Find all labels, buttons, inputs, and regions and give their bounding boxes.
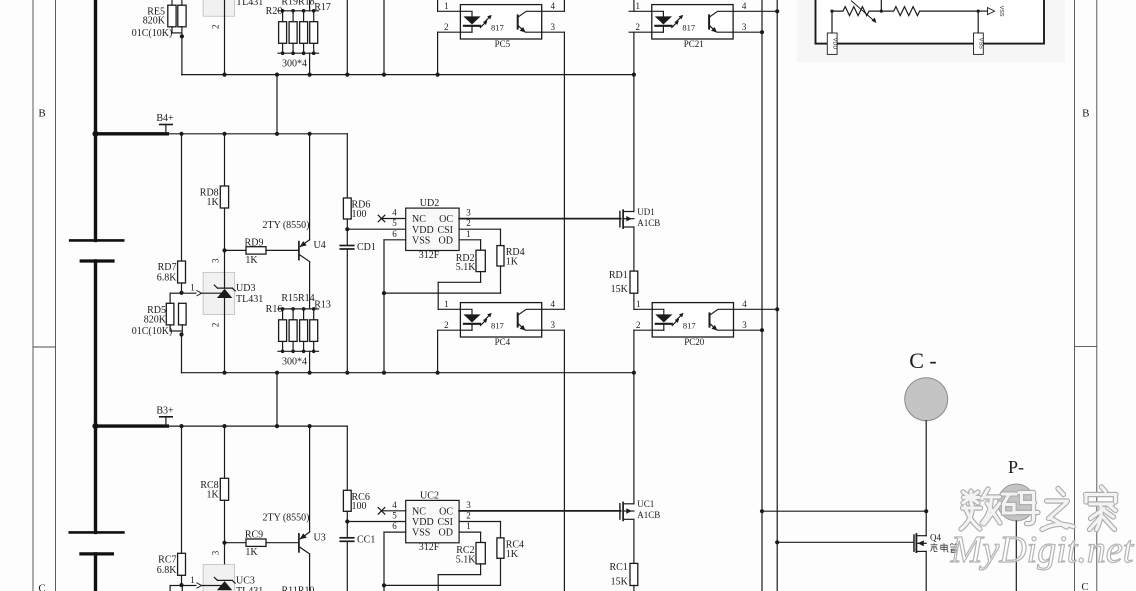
junction RD7/ref <box>179 291 183 295</box>
junction RD9 base node <box>222 248 226 252</box>
svg-text:VSS: VSS <box>412 528 430 539</box>
svg-text:1: 1 <box>466 521 471 531</box>
terminal B3+ <box>156 405 174 426</box>
wire R2x network to E-bus <box>309 53 311 74</box>
optocoupler PC20 body <box>652 303 733 347</box>
inset port VSS <box>974 33 984 54</box>
resistor RD7 <box>157 261 186 284</box>
svg-text:R20: R20 <box>266 6 283 17</box>
svg-text:1K: 1K <box>245 255 258 266</box>
svg-text:R11R10: R11R10 <box>282 585 315 591</box>
svg-text:2: 2 <box>466 511 471 521</box>
junction RC7/ref <box>179 583 183 587</box>
svg-text:2: 2 <box>444 22 449 32</box>
svg-text:TL431: TL431 <box>236 294 263 305</box>
svg-text:100: 100 <box>352 501 367 512</box>
watermark zhi character <box>1042 489 1073 530</box>
svg-text:RC1: RC1 <box>609 562 627 573</box>
resistor R2x1 <box>279 22 287 44</box>
svg-text:312F: 312F <box>419 250 440 261</box>
svg-text:R16: R16 <box>266 304 283 315</box>
inset potentiometer RP <box>832 1 881 23</box>
wire RC7 top <box>181 426 183 553</box>
svg-text:3: 3 <box>742 320 747 330</box>
wire bus B to Q4 gate <box>777 541 914 543</box>
battery cell BT4 <box>69 240 125 261</box>
svg-text:R15R14: R15R14 <box>281 293 314 304</box>
wire PC4 pin3 down to PC3 (cut) <box>563 330 565 591</box>
svg-text:U3: U3 <box>314 532 326 543</box>
shunt regulator UC3 highlight box <box>203 565 235 591</box>
svg-text:CD1: CD1 <box>357 242 376 253</box>
svg-text:RC9: RC9 <box>245 530 263 541</box>
watermark ma character <box>1003 493 1039 524</box>
wire CD1 to D-bus <box>346 249 348 373</box>
svg-text:4: 4 <box>550 299 555 309</box>
PC5 pin 1 wire <box>438 10 461 12</box>
svg-text:2TY (8550): 2TY (8550) <box>263 512 310 523</box>
wire UC3 anode down (cut) <box>224 589 226 591</box>
svg-text:MyDigit.net: MyDigit.net <box>950 529 1135 571</box>
junction RC9 base node <box>222 541 226 545</box>
wire right bus B <box>776 0 778 591</box>
junction D-bus x224 <box>222 371 226 375</box>
svg-text:OD: OD <box>439 528 453 539</box>
wire RC2 bottom to PC3 (cut) <box>438 564 480 591</box>
PC4 pin 4 wire <box>542 308 565 310</box>
resistor RC7 <box>157 553 186 576</box>
wire B3+ rail thick <box>96 424 168 427</box>
wire Q4 source down (cut) <box>925 551 927 591</box>
mosfet Q4 <box>914 533 941 553</box>
wire UD2 pin3 to UD1 gate <box>459 218 621 220</box>
wire PC5 pin1 up (cut) <box>437 0 439 11</box>
svg-text:817: 817 <box>683 320 696 330</box>
junction D-bus x633 <box>632 371 636 375</box>
svg-text:A1CB: A1CB <box>637 510 660 520</box>
junction B4+ at battery bus <box>92 131 98 137</box>
junction PC21 pin3 right bus <box>760 30 764 34</box>
svg-text:VSS: VSS <box>998 6 1004 17</box>
wire RD5a bottom step <box>170 325 181 331</box>
resistor RD9 <box>245 237 266 266</box>
wire RC6 bottom <box>346 511 348 538</box>
wire UC1 source <box>633 519 635 563</box>
svg-text:3: 3 <box>466 500 471 510</box>
wire PC21 pin1 up (cut) <box>633 0 635 11</box>
svg-text:CSI: CSI <box>437 517 453 528</box>
inset junction mid <box>880 10 883 13</box>
wire UD2 pin2 to RD4 <box>459 229 500 245</box>
watermark shu character <box>961 489 1000 529</box>
svg-text:U4: U4 <box>314 240 326 251</box>
svg-text:2: 2 <box>636 320 641 330</box>
wire UD2 VSS column <box>383 240 385 373</box>
wire PC21 pin2 to UD1 drain <box>633 32 635 211</box>
svg-text:RD1: RD1 <box>609 270 628 281</box>
svg-text:PC21: PC21 <box>684 39 704 49</box>
resistor RD5b <box>179 303 187 325</box>
svg-text:UD1: UD1 <box>637 207 655 217</box>
resistor RD2 <box>456 250 486 273</box>
svg-text:6: 6 <box>392 229 397 239</box>
resistor RC9 <box>245 530 266 559</box>
svg-text:100: 100 <box>352 209 367 220</box>
junction E-bus x437 <box>436 73 440 77</box>
watermark jia character <box>1086 487 1117 530</box>
wire RC8 bottom <box>224 500 226 580</box>
resistor R1x2 <box>289 320 297 342</box>
resistor RD4 <box>497 246 525 268</box>
junction B3+ x181 <box>179 424 183 428</box>
wire RC1 down (cut) <box>633 586 635 591</box>
junction D-bus x384 <box>382 371 386 375</box>
PC20 pin 1 wire <box>634 308 652 310</box>
svg-text:3: 3 <box>550 22 555 32</box>
junction VDD node C <box>345 519 349 523</box>
wire U4 emitter <box>309 134 311 240</box>
wire RD6 bottom <box>346 219 348 246</box>
transistor U4 <box>299 240 326 262</box>
terminal C- circle <box>905 348 948 421</box>
junction B4+ x277 <box>275 132 279 136</box>
PC21 pin 4 wire <box>733 10 777 12</box>
resistor RE5a <box>143 5 176 27</box>
junction PC20 pin3 right bus <box>760 328 764 332</box>
svg-text:1: 1 <box>190 575 195 585</box>
PC21 pin 2 wire <box>629 31 652 33</box>
wire VDD to UD2 pin5 <box>347 228 405 230</box>
shunt regulator UE3 highlight box (cut) <box>203 0 235 16</box>
ic UD2 312F body <box>406 198 459 261</box>
svg-text:UC1: UC1 <box>637 499 654 509</box>
inset port VDD <box>827 33 837 54</box>
label Q4 chinese chongdianguan <box>930 543 957 552</box>
resistor RC1 <box>609 562 637 587</box>
svg-text:4: 4 <box>742 1 747 11</box>
wire U4 collector <box>309 262 311 309</box>
PC20 pin 3 wire <box>734 329 763 331</box>
svg-text:RC7: RC7 <box>158 554 176 565</box>
svg-text:VSS: VSS <box>978 38 984 49</box>
resistor RC2 <box>456 543 486 566</box>
svg-text:R17: R17 <box>314 2 331 13</box>
junction E-bus x277 <box>275 73 279 77</box>
svg-text:NC: NC <box>412 214 426 225</box>
wire RC5 top step (cut) <box>170 586 182 591</box>
resistor RD6 <box>343 198 370 220</box>
optocoupler PC21 body <box>652 5 733 49</box>
svg-text:1: 1 <box>636 299 641 309</box>
junction VSS/RD4 node <box>382 291 386 295</box>
svg-text:01C(10K): 01C(10K) <box>132 28 173 39</box>
svg-text:4: 4 <box>392 500 397 510</box>
svg-text:PC4: PC4 <box>495 337 511 347</box>
svg-text:2: 2 <box>211 25 221 30</box>
svg-text:B: B <box>38 108 45 120</box>
svg-text:3: 3 <box>466 208 471 218</box>
svg-text:CSI: CSI <box>437 225 453 236</box>
svg-text:6.8K: 6.8K <box>157 273 178 284</box>
svg-text:CC1: CC1 <box>357 534 375 545</box>
junction bus B / Q4 gate <box>775 540 779 544</box>
wire UD3 anode to D-bus <box>224 298 226 373</box>
svg-text:3: 3 <box>211 258 221 263</box>
svg-text:3: 3 <box>550 320 555 330</box>
junction VDD node <box>345 227 349 231</box>
junction D-bus x309 <box>308 371 312 375</box>
PC4 pin 3 wire <box>542 329 565 331</box>
resistor RD8 <box>200 186 229 208</box>
wire CE1 column (cut) <box>346 0 348 75</box>
terminal P- circle <box>998 457 1035 521</box>
svg-text:2TY (8550): 2TY (8550) <box>263 220 310 231</box>
wire RC7 bottom <box>181 575 183 585</box>
svg-text:5: 5 <box>392 511 397 521</box>
junction E-bus x633 <box>632 73 636 77</box>
wire RC9 to U3 base <box>266 542 298 544</box>
wire VDD to UC2 pin5 <box>347 521 405 523</box>
resistor RC4 <box>497 538 524 560</box>
wire P- down (cut) <box>1015 521 1017 591</box>
wire RC6 top <box>346 426 348 490</box>
shunt regulator UD3 symbol <box>214 285 235 298</box>
wire UE2 VSS column (cut) <box>383 0 385 75</box>
wire UC2 pin3 to UC1 gate <box>459 510 621 512</box>
inset wire right drop <box>977 11 979 33</box>
resistor RD1 <box>609 270 638 295</box>
UC2 pin 4 no-connect stub <box>378 508 406 515</box>
wire CC1 down (cut) <box>346 541 348 591</box>
junction B3+ x277 <box>275 424 279 428</box>
svg-text:VDD: VDD <box>412 517 434 528</box>
svg-text:2: 2 <box>444 320 449 330</box>
wire D-bus <box>182 372 634 374</box>
svg-text:C: C <box>1081 581 1088 591</box>
wire RD8 top <box>224 134 226 186</box>
battery bus B+ <box>94 0 97 591</box>
svg-text:820K: 820K <box>144 315 167 326</box>
wire C- to node <box>925 421 927 512</box>
junction VSS/RC4 node <box>382 583 386 587</box>
junction C- node <box>924 509 928 513</box>
svg-text:5.1K: 5.1K <box>456 555 477 566</box>
wire B3+ rail thin <box>167 425 347 427</box>
junction B4+ x309 <box>308 132 312 136</box>
wire U5 emitter feed (cut) <box>309 0 311 11</box>
svg-text:B3+: B3+ <box>156 405 174 416</box>
wire UC2 pin6 left <box>384 531 406 533</box>
junction B3+ x224 <box>222 424 226 428</box>
wire bus A to C- node <box>762 510 926 512</box>
junction B4+ x224 <box>222 132 226 136</box>
UD3 ref pin wire <box>182 290 221 296</box>
svg-text:817: 817 <box>491 22 504 32</box>
wire B4+ rail thin <box>167 133 347 135</box>
svg-text:300*4: 300*4 <box>282 58 307 69</box>
svg-text:TL431: TL431 <box>236 0 263 8</box>
wire RD5a top step <box>170 293 181 303</box>
mosfet UD1 <box>620 207 660 229</box>
svg-text:6: 6 <box>392 521 397 531</box>
svg-text:RD7: RD7 <box>158 262 177 273</box>
inset resistor R <box>881 7 978 16</box>
wire UD1 source <box>633 227 635 271</box>
svg-text:1: 1 <box>444 299 449 309</box>
junction PC21 pin4 right bus <box>775 9 779 13</box>
mosfet UC1 <box>620 499 660 521</box>
optocoupler PC5 body <box>460 5 541 49</box>
resistor RE5b <box>178 5 186 27</box>
svg-text:1: 1 <box>636 1 641 11</box>
wire node to Q4 drain <box>925 511 927 536</box>
wire RD7 bottom <box>181 283 183 293</box>
svg-text:NC: NC <box>412 506 426 517</box>
svg-text:1: 1 <box>444 1 449 11</box>
inset wire mid up (cut) <box>880 0 882 11</box>
wire D-bus drop to B3+ <box>276 373 278 426</box>
svg-text:Q4: Q4 <box>930 533 941 543</box>
svg-text:R13: R13 <box>314 299 331 310</box>
svg-text:1K: 1K <box>506 549 519 560</box>
inset halo <box>797 0 1065 62</box>
svg-text:P-: P- <box>1008 457 1024 477</box>
svg-text:15K: 15K <box>611 284 629 295</box>
svg-text:1K: 1K <box>245 547 258 558</box>
svg-text:5.1K: 5.1K <box>456 262 477 273</box>
PC5 pin 3 wire <box>542 31 565 33</box>
svg-text:300*4: 300*4 <box>282 357 307 368</box>
svg-text:4: 4 <box>742 299 747 309</box>
svg-text:4: 4 <box>550 1 555 11</box>
resistor R1x3 <box>300 320 308 342</box>
svg-text:5: 5 <box>392 218 397 228</box>
resistor R2x4 <box>310 22 318 44</box>
svg-text:820K: 820K <box>143 16 166 27</box>
junction E-bus x347 <box>345 73 349 77</box>
junction bus A / C- link <box>760 509 764 513</box>
wire PC4 pin2 to D-bus <box>437 330 439 373</box>
svg-text:15K: 15K <box>611 577 629 588</box>
svg-text:RD9: RD9 <box>245 237 264 248</box>
wire RD9 to U4 base <box>266 249 298 251</box>
svg-text:UD3: UD3 <box>236 283 255 294</box>
svg-text:01C(10K): 01C(10K) <box>132 326 173 337</box>
inset VSS net symbol <box>978 6 1004 17</box>
junction PC20 pin4 right bus <box>775 307 779 311</box>
svg-text:312F: 312F <box>419 542 440 553</box>
svg-text:VDD: VDD <box>412 225 434 236</box>
junction B4+ x181 <box>179 132 183 136</box>
PC21 pin 1 wire <box>629 10 652 12</box>
resistor RD5a <box>144 303 174 325</box>
resistor RE5 highlight <box>0 0 1 1</box>
resistor network R1x rails <box>278 307 319 353</box>
wire RE5 tops to cut edge <box>172 0 182 5</box>
svg-text:4: 4 <box>392 208 397 218</box>
wire RD4 bottom to VSS node <box>384 266 501 293</box>
wire UD2 pin6 left <box>384 239 406 241</box>
svg-text:UC2: UC2 <box>420 490 439 501</box>
junction D-bus x437 <box>436 371 440 375</box>
junction D-bus x277 <box>275 371 279 375</box>
wire E-bus drop to B4+ <box>276 75 278 134</box>
inset junction right <box>977 10 980 13</box>
ic UC2 312F body <box>406 490 459 553</box>
UC3 ref pin wire <box>182 583 221 589</box>
svg-text:C -: C - <box>909 348 937 373</box>
shunt regulator UC3 symbol <box>214 577 235 590</box>
wire RD5b bottom <box>181 325 183 335</box>
junction B3+ at battery bus <box>92 423 98 429</box>
svg-text:2: 2 <box>636 22 641 32</box>
resistor R1x4 <box>310 320 318 342</box>
svg-text:TL431: TL431 <box>236 586 263 591</box>
resistor network R2x rails <box>278 9 319 55</box>
svg-text:1K: 1K <box>206 197 219 208</box>
svg-text:B: B <box>1082 108 1089 120</box>
wire UD2 pin1 to RD2 <box>459 240 481 250</box>
wire RC8 top <box>224 426 226 478</box>
inset board outline <box>816 0 1045 44</box>
svg-text:3: 3 <box>742 22 747 32</box>
wire UC2 VSS column (cut) <box>383 532 385 591</box>
transistor U3 <box>299 532 326 554</box>
junction RD5 bottom <box>179 332 183 336</box>
svg-text:817: 817 <box>682 22 695 32</box>
PC20 pin 4 wire <box>734 308 778 310</box>
wire B4+ rail thick <box>96 132 168 135</box>
wire UE3 anode to E-bus <box>224 0 226 75</box>
PC21 pin 3 wire <box>733 31 762 33</box>
wire UC2 pin2 to RC4 <box>459 522 500 538</box>
optocoupler PC4 body <box>460 303 541 347</box>
terminal B4+ <box>156 113 174 134</box>
svg-text:1: 1 <box>190 283 195 293</box>
wire RD7 top <box>181 134 183 261</box>
svg-text:VSS: VSS <box>412 235 430 246</box>
UD2 pin 4 no-connect stub <box>378 215 406 222</box>
svg-text:UD2: UD2 <box>420 198 439 209</box>
wire RC4 bottom to VSS node <box>384 558 501 585</box>
svg-text:817: 817 <box>491 320 504 330</box>
svg-text:OD: OD <box>439 235 453 246</box>
wire RE5a bottom step <box>172 27 182 33</box>
svg-text:PC5: PC5 <box>495 39 511 49</box>
svg-text:2: 2 <box>211 323 221 328</box>
resistor RC6 <box>343 490 369 512</box>
inset junction left <box>830 10 833 13</box>
wire RE5b bottom <box>181 27 183 75</box>
svg-text:UC3: UC3 <box>236 575 255 586</box>
battery cell BT3 <box>69 532 125 554</box>
shunt regulator UD3 highlight box <box>203 272 235 314</box>
wire RD6 top <box>346 134 348 198</box>
junction E-bus x224 <box>222 73 226 77</box>
svg-text:PC20: PC20 <box>684 337 705 347</box>
svg-text:1K: 1K <box>206 489 219 500</box>
svg-text:1: 1 <box>466 229 471 239</box>
inset wire left drop <box>831 11 833 33</box>
svg-text:6.8K: 6.8K <box>157 565 178 576</box>
wire right bus A <box>761 0 763 591</box>
sheet border left <box>33 0 56 591</box>
svg-text:VDD: VDD <box>831 38 837 50</box>
resistor R1x1 <box>279 320 287 342</box>
wire RE5 column to E-bus corner <box>181 74 183 76</box>
svg-text:1K: 1K <box>506 257 519 268</box>
wire RD5 to D-bus corner <box>181 335 183 373</box>
